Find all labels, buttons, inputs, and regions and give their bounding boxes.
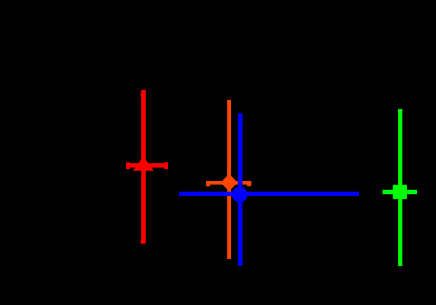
orange data point: vertical error bar [227, 100, 231, 259]
red horizontal error bar: right cap [164, 162, 168, 169]
orange horizontal error bar: left cap [206, 181, 210, 186]
red data point: horizontal error bar [126, 163, 168, 167]
red triangle marker [133, 156, 154, 170]
red vertical error bar: bottom-left notch [140, 240, 143, 243]
orange data point: horizontal error bar [206, 181, 251, 185]
orange horizontal error bar: right cap [247, 181, 251, 186]
green data point: horizontal error bar [383, 190, 418, 194]
red horizontal error bar: left cap [126, 162, 130, 169]
blue data point: vertical error bar [238, 113, 243, 265]
red data point: vertical error bar [141, 90, 146, 244]
red vertical error bar: top-left notch [140, 93, 143, 96]
blue circle marker [232, 187, 248, 203]
blue data point: horizontal error bar [179, 192, 359, 196]
orange diamond marker [221, 174, 238, 192]
green square marker [393, 185, 407, 199]
green data point: vertical error bar [398, 109, 402, 266]
